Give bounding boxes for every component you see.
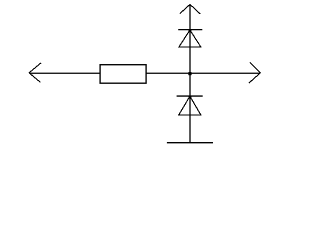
wire: vertical from node down to ground bar <box>189 73 191 142</box>
junction blob at D1 cathode/apex <box>189 30 192 33</box>
diode D2 (lower clamp, triangle) <box>179 96 201 115</box>
diode D1 (upper clamp, triangle) <box>179 30 201 47</box>
terminal arrow (right output) <box>249 62 261 83</box>
diode D2 (lower clamp, cathode bar) <box>177 95 203 97</box>
terminal arrow (left input) <box>29 63 41 83</box>
node (junction dot on main wire) <box>188 72 191 75</box>
diode D1 (upper clamp, cathode bar) <box>178 29 202 31</box>
wire: left lead from input arrow to resistor <box>29 72 100 74</box>
wire: right lead from resistor to output arrow <box>146 72 260 74</box>
resistor R (box style) <box>100 65 146 84</box>
junction blob at D2 cathode/apex <box>189 96 192 98</box>
terminal arrow (top, positive supply) <box>180 4 200 14</box>
wire: vertical from supply arrow down to node <box>189 4 191 73</box>
ground <box>167 142 213 144</box>
